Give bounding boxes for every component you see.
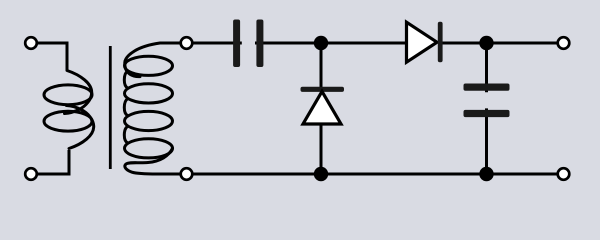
secondary terminal top	[181, 37, 193, 49]
output terminal top-right	[558, 37, 570, 49]
diode D2 triangle	[407, 22, 438, 62]
node A junction dot (top of D1)	[314, 36, 328, 50]
wire: capacitor C2 vertical leads	[485, 43, 488, 174]
wire: secondary top terminal to capacitor C1	[192, 42, 242, 45]
wire: capacitor C1 to diode D2 (through node A)	[255, 42, 407, 45]
secondary terminal bottom	[181, 168, 193, 180]
transformer primary winding L1	[65, 71, 94, 149]
wire: bottom rail	[192, 173, 558, 176]
diode D1 cathode bar	[301, 87, 345, 92]
wire: diode D1 anode/cathode vertical leads	[320, 43, 323, 174]
wire: diode D2 cathode to top-right terminal (through node B)	[440, 42, 558, 45]
junction dot (bottom of D1)	[314, 167, 328, 181]
capacitor C2 top plate	[464, 84, 510, 91]
node B junction dot (top of C2)	[479, 36, 493, 50]
diode D2 cathode bar	[438, 22, 443, 62]
output terminal bottom-right	[558, 168, 570, 180]
diode D1 triangle	[303, 91, 341, 124]
transformer core	[109, 46, 112, 169]
capacitor C2 bottom plate	[464, 110, 510, 117]
capacitor C1 left plate	[233, 20, 240, 68]
capacitor C1 right plate	[256, 20, 263, 68]
input terminal top-left	[25, 37, 37, 49]
input terminal bottom-left	[25, 168, 37, 180]
transformer secondary winding L2	[124, 43, 186, 174]
junction dot (bottom of C2)	[479, 167, 493, 181]
wire: primary bottom lead	[37, 150, 69, 174]
wire: primary top lead	[37, 43, 67, 70]
